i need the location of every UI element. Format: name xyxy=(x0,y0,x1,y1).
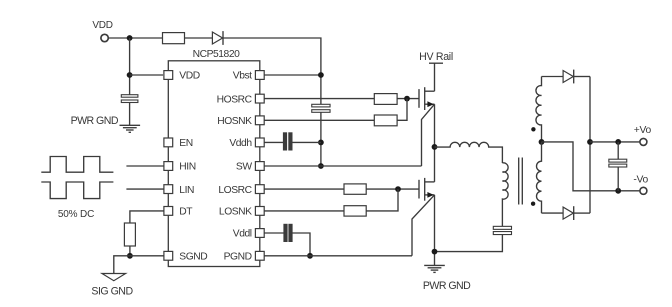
wire xyxy=(264,141,284,143)
wire xyxy=(126,165,163,167)
wire xyxy=(264,210,344,212)
inductor L1 xyxy=(435,142,503,163)
wire xyxy=(292,141,321,143)
transistor Q2 xyxy=(418,180,420,199)
ground SIG GND xyxy=(102,274,126,281)
wire xyxy=(264,232,284,234)
terminal -Vo xyxy=(640,187,647,194)
svg-text:VDD: VDD xyxy=(92,20,112,31)
wire xyxy=(574,76,590,78)
transformer T1 core xyxy=(518,158,520,205)
wire xyxy=(109,37,163,39)
wire xyxy=(264,119,374,121)
pin Vddl xyxy=(255,229,264,238)
diode D1 xyxy=(212,32,222,44)
svg-text:PWR GND: PWR GND xyxy=(71,115,119,127)
wire xyxy=(542,76,564,78)
svg-text:EN: EN xyxy=(179,138,192,149)
pin Vddh xyxy=(255,138,264,147)
wire xyxy=(434,63,436,91)
transformer T1 secondary upper xyxy=(536,77,542,142)
resistor R3 xyxy=(374,94,397,105)
svg-text:SGND: SGND xyxy=(179,252,207,263)
svg-text:+Vo: +Vo xyxy=(634,125,652,136)
resistor R1 xyxy=(163,33,185,44)
capacitor C4 xyxy=(493,226,511,229)
capacitor C2 xyxy=(312,104,330,107)
op-amp U1 NCP51820 body xyxy=(168,61,259,267)
wire xyxy=(320,112,322,166)
junction xyxy=(395,186,401,192)
ground PWR GND xyxy=(120,124,141,126)
svg-text:50% DC: 50% DC xyxy=(58,209,94,220)
pin Vbst xyxy=(255,71,264,80)
capacitor C5 xyxy=(284,224,287,241)
svg-text:VDD: VDD xyxy=(179,71,199,82)
junction xyxy=(307,253,313,259)
pin LIN xyxy=(164,185,173,194)
transformer T1 primary xyxy=(502,163,508,227)
wire xyxy=(130,255,164,257)
wire xyxy=(130,211,164,223)
junction xyxy=(404,96,410,102)
terminal +Vo xyxy=(640,138,647,145)
wire xyxy=(264,74,321,76)
svg-text:Vbst: Vbst xyxy=(233,71,252,82)
junction xyxy=(539,139,545,145)
pin HOSRC xyxy=(255,94,264,103)
wire xyxy=(397,98,419,100)
svg-text:HOSNK: HOSNK xyxy=(217,116,252,127)
wire xyxy=(292,233,310,256)
wire xyxy=(129,102,131,125)
junction xyxy=(318,140,324,146)
transformer T1 secondary lower xyxy=(537,142,542,213)
pin LOSNK xyxy=(255,207,264,216)
svg-text:PWR GND: PWR GND xyxy=(423,280,471,292)
wire xyxy=(542,142,641,191)
wire xyxy=(129,38,131,95)
junction xyxy=(432,249,438,255)
wire xyxy=(114,256,130,274)
wire xyxy=(397,99,407,121)
wire xyxy=(617,167,619,191)
svg-text:LOSRC: LOSRC xyxy=(218,185,252,196)
junction xyxy=(432,144,438,150)
pin PGND xyxy=(255,251,264,260)
wire xyxy=(617,142,619,160)
wire xyxy=(366,188,419,190)
svg-text:DT: DT xyxy=(179,207,193,218)
svg-text:Vddl: Vddl xyxy=(233,229,252,240)
wire xyxy=(590,141,640,143)
svg-text:Vddh: Vddh xyxy=(229,138,252,149)
resistor R6 xyxy=(344,206,366,216)
junction xyxy=(587,139,593,145)
polarity dot xyxy=(531,202,535,206)
capacitor C3 xyxy=(283,133,286,150)
junction xyxy=(318,163,324,169)
waveform HIN 50% DC xyxy=(41,157,113,173)
junction xyxy=(615,188,621,194)
svg-text:PGND: PGND xyxy=(224,252,252,263)
wire xyxy=(185,37,213,39)
wire xyxy=(264,255,412,257)
power HV Rail xyxy=(429,62,443,64)
wire xyxy=(434,195,436,266)
terminal VDD xyxy=(101,34,108,41)
wire xyxy=(434,104,436,182)
pin DT xyxy=(164,207,173,216)
wire xyxy=(574,212,590,214)
pin HOSNK xyxy=(255,116,264,125)
resistor R5 xyxy=(344,184,366,194)
pin VDD xyxy=(164,71,173,80)
junction xyxy=(615,139,621,145)
wire xyxy=(130,74,164,76)
svg-text:SW: SW xyxy=(236,162,252,173)
wire xyxy=(264,98,374,100)
polarity dot xyxy=(531,127,535,131)
pin SW xyxy=(255,162,264,171)
wire xyxy=(422,104,435,166)
capacitor C1 xyxy=(121,95,138,98)
junction xyxy=(318,72,324,78)
svg-text:LOSNK: LOSNK xyxy=(219,207,252,218)
svg-text:NCP51820: NCP51820 xyxy=(193,49,240,60)
svg-text:LIN: LIN xyxy=(179,185,194,196)
diode D3 xyxy=(563,207,573,219)
svg-text:SIG GND: SIG GND xyxy=(91,286,133,298)
wire xyxy=(264,188,344,190)
waveform LIN 50% DC xyxy=(41,182,113,199)
wire xyxy=(435,235,503,252)
transistor Q1 xyxy=(418,89,420,108)
wire xyxy=(223,38,321,104)
svg-text:-Vo: -Vo xyxy=(633,174,648,185)
resistor R2 xyxy=(124,223,135,246)
svg-text:HIN: HIN xyxy=(179,162,195,173)
wire xyxy=(589,77,591,214)
wire xyxy=(542,212,564,214)
wire xyxy=(129,246,131,256)
pin LOSRC xyxy=(255,185,264,194)
junction xyxy=(127,35,133,41)
pin HIN xyxy=(164,162,173,171)
capacitor C6 xyxy=(609,159,627,162)
svg-text:HV Rail: HV Rail xyxy=(419,51,453,63)
wire xyxy=(264,165,421,167)
junction xyxy=(127,72,133,78)
wire xyxy=(412,195,435,256)
junction xyxy=(127,253,133,259)
ground PWR GND xyxy=(424,264,445,266)
wire xyxy=(366,189,398,211)
wire xyxy=(126,188,163,190)
diode D2 xyxy=(563,71,573,83)
pin EN xyxy=(164,138,173,147)
svg-text:HOSRC: HOSRC xyxy=(217,94,253,105)
pin SGND xyxy=(164,251,173,260)
resistor R4 xyxy=(374,115,397,126)
